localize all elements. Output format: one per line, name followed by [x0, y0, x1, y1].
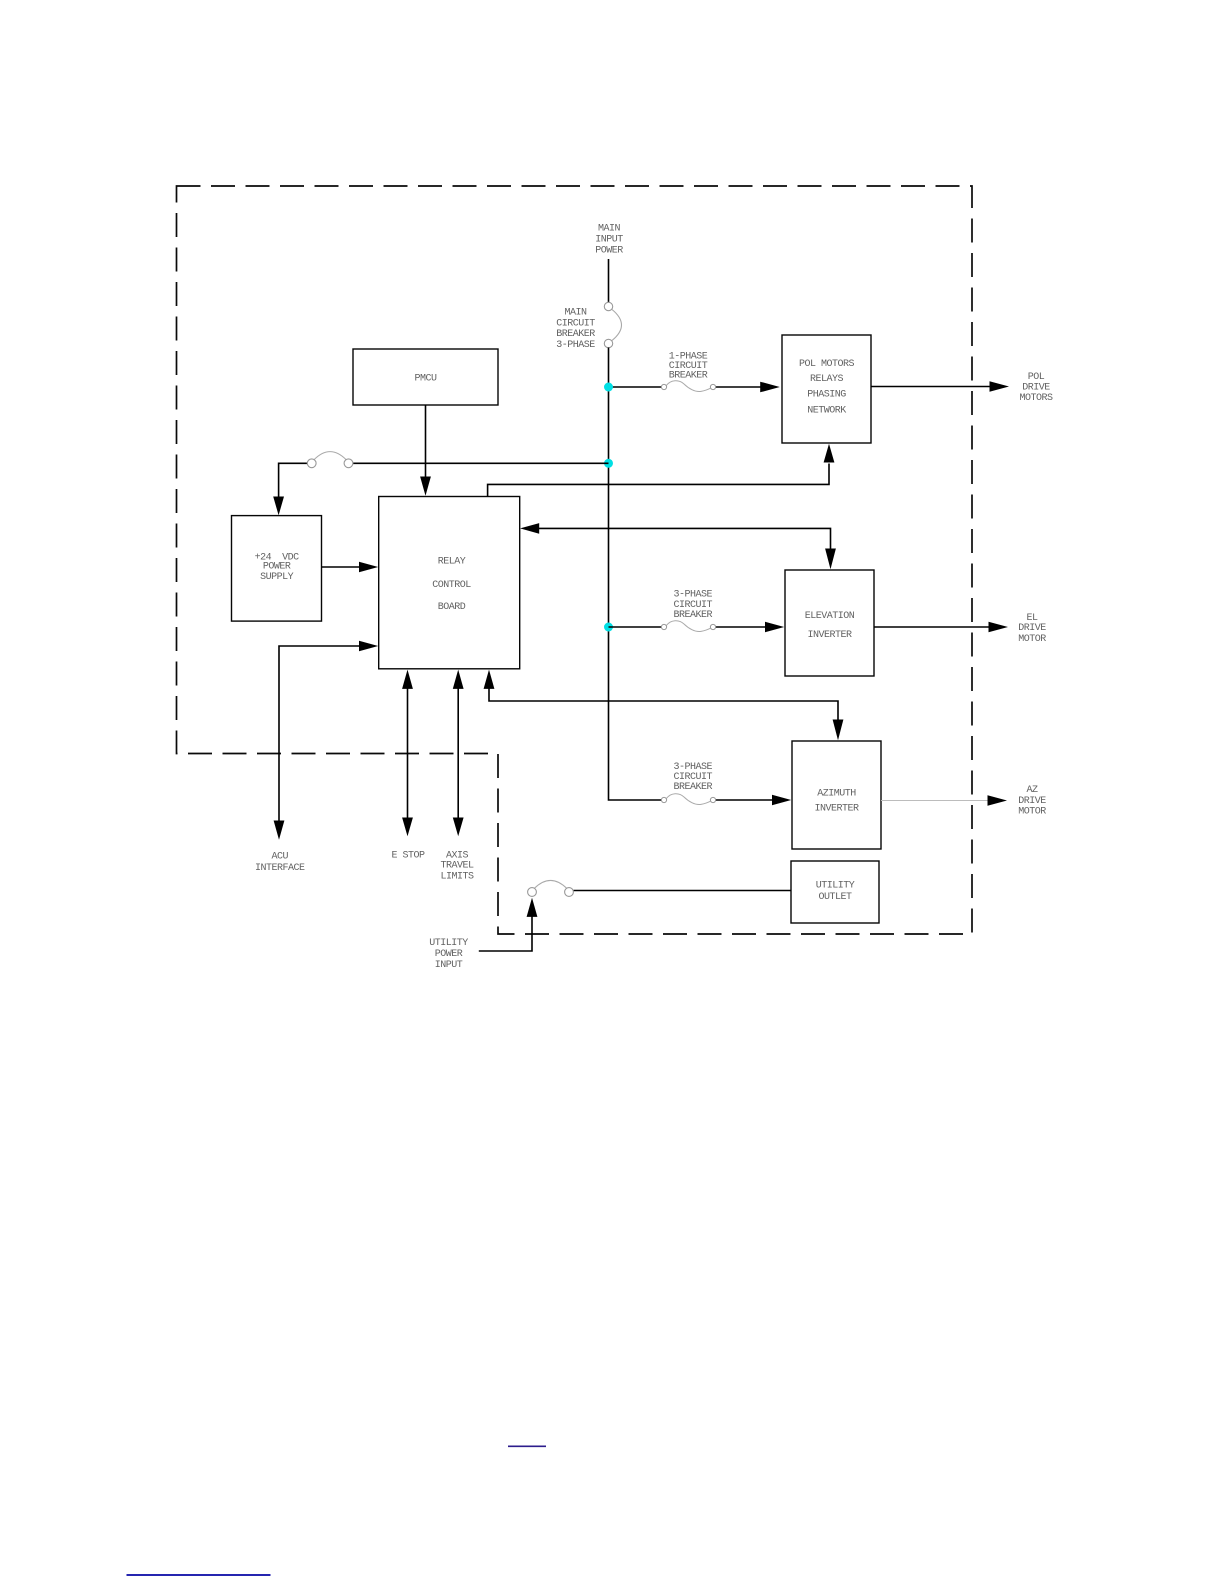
wire: relay board to E STOP (bidirectional) [402, 670, 413, 689]
wire: utility power input [527, 898, 538, 917]
svg-text:BREAKER: BREAKER [556, 329, 595, 340]
svg-text:3-PHASE: 3-PHASE [556, 340, 595, 351]
wire: elevation output to EL drive motor [874, 626, 989, 628]
svg-text:RELAY: RELAY [438, 557, 466, 568]
svg-text:TRAVEL: TRAVEL [440, 861, 474, 872]
svg-text:NETWORK: NETWORK [807, 405, 846, 416]
block: RELAY CONTROL BOARD [379, 497, 520, 669]
svg-text:DRIVE: DRIVE [1018, 623, 1046, 634]
svg-text:UTILITY: UTILITY [429, 938, 468, 949]
svg-text:BREAKER: BREAKER [673, 610, 712, 621]
wire: PMCU to relay control board [425, 405, 427, 478]
breaker: +24 feed breaker [307, 452, 353, 468]
svg-text:PHASING: PHASING [807, 390, 846, 401]
breaker: 3-PHASE CIRCUIT BREAKER (azimuth) [661, 794, 715, 805]
svg-text:OUTLET: OUTLET [818, 892, 852, 903]
block: UTILITY OUTLET [791, 861, 879, 923]
svg-text:ELEVATION: ELEVATION [805, 611, 855, 622]
breaker: MAIN CIRCUIT BREAKER 3-PHASE [604, 302, 621, 347]
node: MAIN INPUT POWER label [595, 223, 623, 256]
svg-text:POWER: POWER [595, 245, 623, 256]
wire: +24 VDC to relay control board [322, 566, 360, 568]
wire: relay board to AXIS TRAVEL LIMITS (bidirectional) [453, 670, 464, 689]
block: +24 VDC POWER SUPPLY [232, 516, 322, 622]
block: AZIMUTH INVERTER [792, 741, 881, 849]
wire: relay board to azimuth inverter (bidirectional) [484, 670, 495, 689]
node: bus junction J3 [604, 623, 613, 632]
svg-text:POWER: POWER [263, 562, 291, 573]
wire: main input drop [608, 259, 610, 303]
enclosure dashed boundary [177, 186, 973, 934]
wire: POL output to motors [871, 386, 990, 388]
wire: 1-phase branch [609, 386, 662, 388]
svg-text:INTERFACE: INTERFACE [255, 863, 305, 874]
block: PMCU [353, 349, 498, 405]
svg-text:CIRCUIT: CIRCUIT [556, 318, 595, 329]
svg-text:POWER: POWER [435, 949, 463, 960]
svg-text:PMCU: PMCU [414, 373, 437, 384]
breaker: 1-PHASE CIRCUIT BREAKER [661, 381, 715, 392]
svg-text:MOTOR: MOTOR [1018, 634, 1046, 645]
svg-text:INVERTER: INVERTER [807, 630, 852, 641]
svg-text:CONTROL: CONTROL [432, 580, 471, 591]
svg-text:DRIVE: DRIVE [1018, 796, 1046, 807]
node: bus junction J1 [604, 383, 613, 392]
svg-text:LIMITS: LIMITS [440, 871, 474, 882]
svg-text:E STOP: E STOP [391, 850, 425, 861]
svg-text:MOTORS: MOTORS [1019, 393, 1053, 404]
svg-text:INPUT: INPUT [595, 234, 623, 245]
svg-text:BREAKER: BREAKER [673, 782, 712, 793]
wire: relay board to POL network [488, 464, 829, 497]
wire: relay board to ACU interface (bidirectional) [359, 641, 378, 652]
svg-text:MAIN: MAIN [598, 223, 621, 234]
breaker: 3-PHASE CIRCUIT BREAKER (elevation) [661, 621, 715, 632]
footer rule blue [127, 1574, 271, 1576]
wire: 3-phase bus [609, 348, 662, 801]
svg-text:SUPPLY: SUPPLY [260, 572, 294, 583]
wire: utility outlet feed [574, 890, 792, 892]
svg-text:BOARD: BOARD [438, 602, 466, 613]
svg-text:INPUT: INPUT [435, 960, 463, 971]
svg-text:RELAYS: RELAYS [810, 374, 844, 385]
svg-text:UTILITY: UTILITY [816, 881, 855, 892]
block: POL MOTORS RELAYS PHASING NETWORK [782, 335, 871, 443]
svg-text:INVERTER: INVERTER [814, 803, 859, 814]
svg-text:POL: POL [1028, 372, 1045, 383]
svg-text:MOTOR: MOTOR [1018, 807, 1046, 818]
wire: relay board to elevation inverter (bidirectional) [520, 523, 539, 534]
svg-text:BREAKER: BREAKER [669, 371, 708, 382]
svg-text:POL MOTORS: POL MOTORS [799, 359, 855, 370]
breaker: utility power breaker [528, 880, 574, 896]
svg-text:ACU: ACU [271, 851, 288, 862]
wire: bus to elevation breaker [609, 626, 662, 628]
svg-text:AZ: AZ [1026, 785, 1038, 796]
svg-text:AZIMUTH: AZIMUTH [817, 788, 856, 799]
wire: bus to +24 VDC supply [353, 462, 609, 464]
wire: bus to azimuth breaker [716, 799, 774, 801]
footer rule small navy [508, 1445, 546, 1447]
wire: azimuth output to AZ drive motor [881, 800, 988, 802]
node: bus junction J2 [604, 459, 613, 468]
svg-text:MAIN: MAIN [564, 308, 587, 319]
block: ELEVATION INVERTER [785, 570, 874, 676]
